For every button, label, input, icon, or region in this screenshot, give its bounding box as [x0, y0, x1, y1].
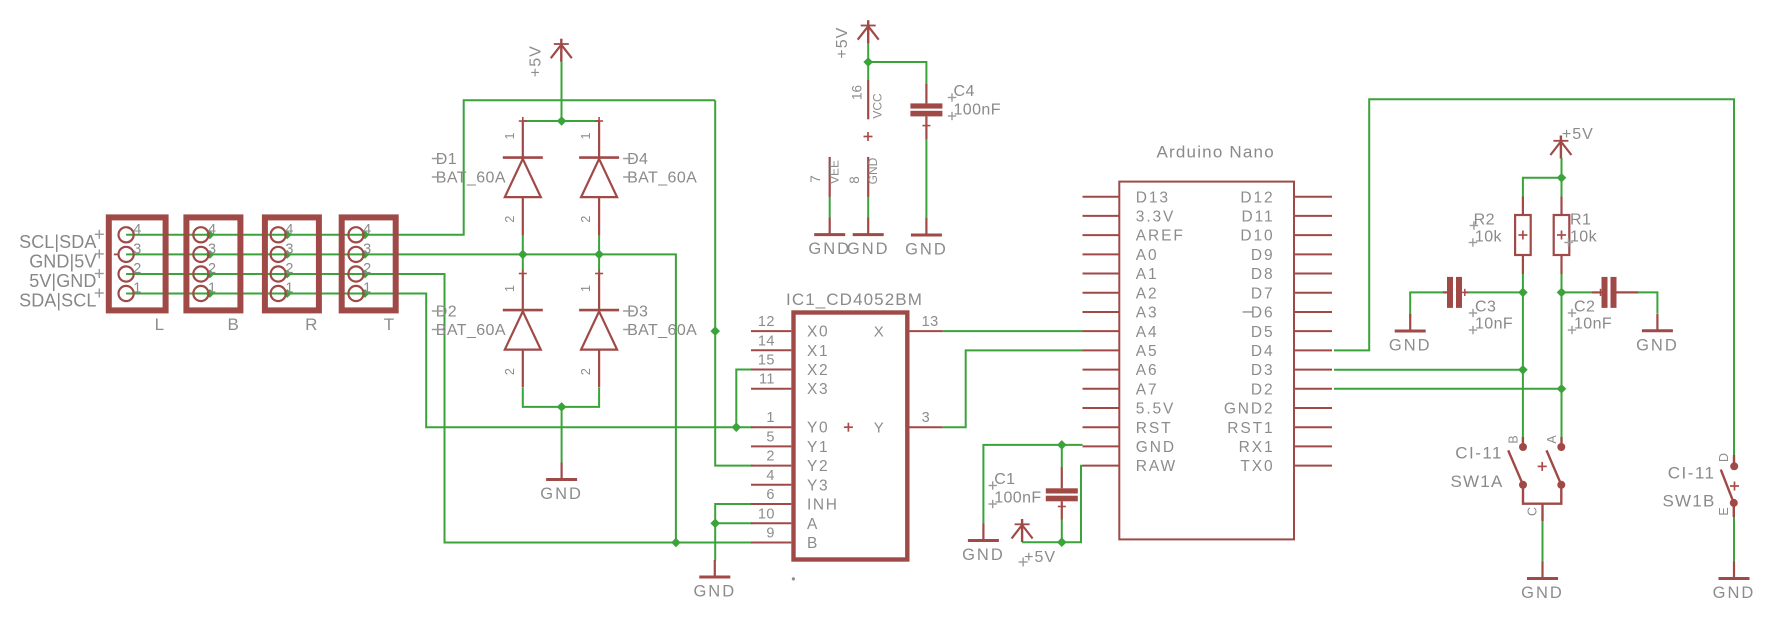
+5V supply at IC VCC: [834, 20, 879, 58]
wire bridge ground drop: [561, 407, 563, 463]
net label SCL|SDA: [19, 230, 104, 252]
svg-text:BAT_60A: BAT_60A: [436, 322, 506, 339]
ground at IC pin 7: [808, 218, 851, 259]
svg-text:RST: RST: [1136, 420, 1173, 437]
svg-text:GND: GND: [905, 241, 948, 259]
junction: [1518, 288, 1528, 298]
svg-text:1: 1: [579, 285, 593, 292]
svg-text:13: 13: [922, 314, 939, 330]
svg-text:11: 11: [759, 372, 775, 388]
junction: [1557, 288, 1567, 298]
svg-text:X: X: [874, 324, 885, 341]
wire Arduino D4 to top rail to SW1B: [1334, 99, 1734, 455]
svg-text:+5V: +5V: [834, 27, 851, 59]
svg-text:1: 1: [363, 281, 371, 297]
wire Arduino D3 to select B node: [1334, 369, 1523, 371]
svg-text:A1: A1: [1136, 266, 1159, 283]
junction: [1057, 537, 1067, 547]
svg-text:GND: GND: [693, 583, 736, 601]
svg-text:8: 8: [847, 176, 862, 184]
svg-text:A2: A2: [1136, 285, 1159, 302]
svg-text:IC1_CD4052BM: IC1_CD4052BM: [786, 290, 923, 309]
svg-text:A6: A6: [1136, 362, 1159, 379]
junction: [1557, 173, 1567, 183]
wire Arduino D2 to select A node: [1334, 388, 1562, 390]
capacitor C2 pin cross: [1597, 291, 1604, 293]
svg-text:GND: GND: [1636, 336, 1679, 354]
junction: [732, 422, 742, 432]
junction: [594, 250, 604, 260]
svg-text:GND|5V: GND|5V: [29, 252, 96, 272]
svg-text:GND: GND: [1389, 337, 1432, 355]
capacitor C4: [910, 83, 1000, 120]
svg-text:+5V: +5V: [1562, 126, 1594, 143]
svg-text:X3: X3: [807, 381, 829, 398]
svg-text:GND: GND: [808, 240, 851, 258]
svg-text:D10: D10: [1240, 228, 1274, 245]
svg-text:INH: INH: [807, 497, 839, 514]
ground at C3: [1389, 314, 1432, 355]
svg-text:B: B: [807, 535, 819, 552]
svg-text:SDA|SCL: SDA|SCL: [19, 291, 96, 311]
svg-text:D4: D4: [1251, 343, 1275, 360]
junction at connector R: [283, 250, 292, 259]
svg-text:BAT_60A: BAT_60A: [436, 170, 506, 187]
Arduino pin D10: [1240, 228, 1332, 245]
svg-text:4: 4: [766, 468, 775, 484]
capacitor C2 left lead stub: [1592, 291, 1602, 293]
svg-text:7: 7: [808, 175, 823, 183]
junction: [1557, 384, 1567, 394]
junction at connector B: [206, 250, 215, 259]
svg-text:D4: D4: [627, 151, 648, 168]
junction: [671, 538, 681, 548]
junction: [710, 519, 720, 529]
svg-text:X0: X0: [807, 324, 829, 341]
resistor R1: [1554, 197, 1598, 275]
svg-text:GND: GND: [1713, 584, 1756, 602]
connector T: [342, 217, 396, 334]
wire +5V rail to Arduino RAW: [1022, 466, 1082, 543]
wire IC GND pin8 to ground: [867, 197, 869, 218]
svg-text:D: D: [1717, 453, 1731, 462]
Arduino pin TX0: [1240, 458, 1332, 475]
svg-text:A: A: [1545, 435, 1559, 444]
switch SW1A: [1451, 435, 1566, 521]
wire net GND|5V row 3 through diode mids: [126, 254, 676, 542]
svg-text:15: 15: [758, 353, 775, 369]
svg-text:D3: D3: [627, 304, 648, 321]
IC1 pin 16 VCC: [850, 80, 885, 119]
wire net 5V|GND row 2 to IC pin B: [126, 274, 752, 543]
wire IC pin A branch: [715, 522, 752, 524]
svg-text:5V|GND: 5V|GND: [29, 271, 96, 291]
junction: [863, 57, 873, 67]
svg-text:GND: GND: [866, 157, 880, 184]
svg-text:CI-11: CI-11: [1668, 464, 1716, 483]
ground at C2: [1636, 314, 1679, 355]
wire IC INH/A to ground: [715, 504, 752, 561]
wire C3 to ground: [1410, 292, 1447, 318]
Arduino pin D3: [1251, 362, 1332, 379]
junction: [1057, 440, 1067, 450]
wire C1 bottom to +5V rail: [1061, 520, 1063, 543]
svg-text:1: 1: [285, 281, 293, 297]
svg-text:2: 2: [503, 216, 517, 223]
wire IC VCC to +5V and C4: [867, 42, 869, 80]
svg-text:D7: D7: [1251, 285, 1275, 302]
svg-text:CI-11: CI-11: [1455, 444, 1503, 463]
capacitor C3: [1447, 277, 1513, 334]
svg-text:D13: D13: [1136, 189, 1170, 206]
svg-text:D6: D6: [1251, 305, 1275, 322]
wire IC Y output to Arduino A5: [943, 350, 1083, 427]
svg-text:GND: GND: [1136, 439, 1176, 456]
svg-text:VCC: VCC: [871, 93, 885, 119]
svg-text:Arduino Nano: Arduino Nano: [1157, 143, 1275, 162]
svg-text:10k: 10k: [1570, 229, 1598, 246]
wire net SCL|SDA row: connectors to riser: [126, 100, 715, 235]
svg-text:X2: X2: [807, 362, 829, 379]
wire diode bridge bottom U to ground: [523, 388, 599, 407]
svg-text:5.5V: 5.5V: [1136, 401, 1176, 418]
svg-text:L: L: [155, 315, 164, 334]
net label 5V|GND: [29, 269, 104, 291]
svg-text:D2: D2: [436, 304, 457, 321]
wire IC X2 tie to Y0 node: [736, 370, 752, 428]
wire diode mid right leads: [598, 235, 600, 274]
Arduino pin A4: [1083, 324, 1159, 341]
Arduino pin D13: [1083, 189, 1170, 206]
wire C2 left lead: [1562, 291, 1593, 293]
Arduino pin GND2: [1224, 401, 1332, 418]
Arduino pin D5: [1251, 324, 1332, 341]
svg-text:D11: D11: [1242, 209, 1275, 226]
svg-text:C1: C1: [994, 471, 1015, 488]
wire +5V to R1 R2 tops: [1523, 178, 1562, 197]
connector R: [265, 217, 319, 334]
junction at connector T: [361, 270, 370, 279]
svg-text:16: 16: [850, 85, 865, 100]
ground at C1: [962, 524, 1005, 565]
wire diode mid left leads: [522, 235, 524, 274]
junction: [1518, 365, 1528, 375]
junction at connector R: [283, 270, 292, 279]
svg-text:A5: A5: [1136, 343, 1159, 360]
svg-text:2: 2: [208, 261, 216, 277]
wire +5V rail to diode bridge top: [561, 61, 563, 122]
svg-text:+5V: +5V: [1024, 549, 1056, 566]
svg-text:C: C: [1526, 507, 1540, 516]
capacitor C2: [1568, 277, 1617, 334]
svg-text:Y1: Y1: [807, 439, 829, 456]
svg-text:10nF: 10nF: [1574, 316, 1612, 333]
Arduino pin D2: [1251, 381, 1332, 398]
svg-text:D1: D1: [436, 151, 457, 168]
IC1 pin 14 X1: [751, 333, 829, 360]
capacitor C3 pin cross: [1461, 291, 1468, 293]
svg-text:AREF: AREF: [1136, 228, 1185, 245]
capacitor C4 bottom lead: [925, 116, 927, 139]
net label GND|5V: [29, 249, 104, 271]
svg-text:GND: GND: [1521, 584, 1564, 602]
capacitor C4 top lead: [925, 84, 927, 103]
wire IC X output to Arduino A4: [943, 330, 1083, 332]
svg-text:100nF: 100nF: [954, 102, 1001, 119]
svg-text:1: 1: [766, 410, 775, 426]
svg-text:2: 2: [579, 216, 593, 223]
Arduino pin A5: [1083, 343, 1159, 360]
IC1 pin 8 GND: [847, 157, 880, 197]
wire C3 right lead: [1464, 291, 1523, 293]
diode D3: [579, 270, 697, 388]
diode D4: [579, 117, 697, 235]
capacitor C1: [989, 471, 1078, 508]
svg-text:2: 2: [766, 449, 775, 465]
svg-text:4: 4: [208, 222, 216, 238]
junction at connector B: [206, 230, 215, 239]
IC1 pin 7 VEE: [808, 157, 842, 197]
svg-text:1: 1: [503, 285, 517, 292]
op-amp U1 IC1 CD4052BM body: [786, 290, 923, 581]
+5V supply above bridge: [527, 39, 572, 77]
svg-text:14: 14: [758, 333, 775, 349]
capacitor C1 bottom lead: [1061, 501, 1063, 519]
junction: [710, 326, 720, 336]
Arduino pin AREF: [1083, 228, 1185, 245]
connector L: [109, 217, 166, 334]
svg-text:BAT_60A: BAT_60A: [627, 170, 697, 187]
svg-text:+5V: +5V: [527, 45, 544, 77]
wire C1 top lead: [1061, 445, 1063, 467]
IC1 pin 11 X3: [751, 372, 829, 399]
junction at connector R: [283, 289, 292, 298]
Arduino pin RST: [1083, 420, 1173, 437]
svg-text:Y2: Y2: [807, 458, 829, 475]
svg-text:GND2: GND2: [1224, 401, 1275, 418]
junction: [557, 116, 567, 126]
svg-text:D5: D5: [1251, 324, 1275, 341]
Arduino pin RST1: [1227, 420, 1332, 437]
svg-text:3: 3: [208, 241, 216, 257]
Arduino pin 3.3V: [1083, 209, 1176, 226]
svg-text:A0: A0: [1136, 247, 1159, 264]
wire Arduino GND / C1 top / ground symbol: [983, 445, 1082, 524]
junction at connector T: [361, 230, 370, 239]
junction at connector B: [206, 289, 215, 298]
ground below C4: [905, 218, 948, 259]
svg-text:R: R: [305, 315, 317, 334]
capacitor C3 left lead stub: [1443, 291, 1447, 293]
wire SW1B bottom to ground: [1733, 517, 1735, 564]
IC1 pin 3 Y output: [874, 410, 943, 437]
svg-text:GND: GND: [847, 240, 890, 258]
ground below bridge: [540, 463, 583, 504]
IC1 pin 13 X output: [874, 314, 943, 341]
svg-text:X1: X1: [807, 343, 829, 360]
svg-text:9: 9: [766, 526, 775, 542]
junction: [518, 250, 528, 260]
junction at connector R: [283, 230, 292, 239]
svg-text:3: 3: [133, 241, 141, 257]
svg-text:C4: C4: [954, 83, 975, 100]
IC1 pin 4 Y3: [751, 468, 829, 495]
svg-text:E: E: [1717, 507, 1731, 515]
wire R1 bottom to C2 node to SW1A pin A: [1561, 274, 1563, 437]
junction at connector T: [361, 250, 370, 259]
wire C4 to ground: [925, 139, 927, 219]
diode D2: [432, 270, 543, 388]
IC1 pin 6 INH: [751, 487, 839, 514]
Arduino pin D12: [1240, 189, 1332, 206]
svg-text:B: B: [1507, 435, 1521, 443]
svg-text:SW1B: SW1B: [1663, 492, 1716, 511]
IC1 pin 9 B: [751, 526, 819, 553]
Arduino pin A7: [1083, 381, 1159, 398]
svg-text:GND: GND: [962, 546, 1005, 564]
svg-text:1: 1: [503, 132, 517, 139]
svg-text:Y3: Y3: [807, 477, 829, 494]
Arduino pin D9: [1251, 247, 1332, 264]
svg-text:100nF: 100nF: [994, 490, 1041, 507]
wire R2 bottom to C3 node to SW1A pin B: [1522, 274, 1524, 437]
Arduino pin 5.5V: [1083, 401, 1176, 418]
svg-text:BAT_60A: BAT_60A: [627, 322, 697, 339]
svg-text:TX0: TX0: [1240, 458, 1274, 475]
+5V supply above R1 R2: [1550, 126, 1593, 159]
svg-text:1: 1: [579, 132, 593, 139]
Arduino pin A2: [1083, 285, 1159, 302]
capacitor C1 top lead: [1061, 467, 1063, 488]
svg-text:SCL|SDA: SCL|SDA: [19, 232, 96, 252]
wire +5V branch to C4: [868, 62, 926, 86]
svg-text:A: A: [807, 516, 819, 533]
Arduino pin D4: [1251, 343, 1332, 360]
ground below SW1B: [1713, 562, 1756, 603]
Arduino pin A6: [1083, 362, 1159, 379]
ground below SW1A: [1521, 562, 1564, 603]
svg-text:12: 12: [758, 314, 775, 330]
svg-text:A3: A3: [1136, 305, 1159, 322]
svg-text:VEE: VEE: [828, 160, 842, 184]
svg-text:2: 2: [579, 368, 593, 375]
resistor R2: [1469, 197, 1531, 275]
Arduino pin A0: [1083, 247, 1159, 264]
IC1 pin 10 A: [751, 506, 819, 533]
svg-text:GND: GND: [540, 485, 583, 503]
svg-text:RX1: RX1: [1239, 439, 1275, 456]
svg-text:A4: A4: [1136, 324, 1159, 341]
svg-text:1: 1: [133, 281, 141, 297]
svg-text:B: B: [228, 315, 239, 334]
svg-text:3: 3: [285, 241, 293, 257]
IC1 pin 15 X2: [751, 353, 829, 380]
svg-text:Y: Y: [874, 420, 885, 437]
Arduino pin RX1: [1239, 439, 1332, 456]
diode D1: [432, 117, 543, 235]
svg-text:2: 2: [133, 261, 141, 277]
svg-text:D12: D12: [1240, 189, 1274, 206]
Arduino pin D7: [1251, 285, 1332, 302]
Arduino pin A3: [1083, 305, 1159, 322]
svg-text:SW1A: SW1A: [1451, 472, 1504, 491]
net label SDA|SCL: [19, 289, 104, 311]
svg-text:D8: D8: [1251, 266, 1275, 283]
wire diode bridge top rail: [523, 120, 599, 122]
capacitor C2 right lead: [1617, 291, 1639, 293]
Arduino pin GND: [1083, 439, 1176, 456]
svg-text:4: 4: [285, 222, 293, 238]
Arduino pin D6: [1243, 305, 1333, 322]
junction: [557, 402, 567, 412]
junction at connector B: [206, 270, 215, 279]
Arduino pin RAW: [1083, 458, 1178, 475]
svg-text:D9: D9: [1251, 247, 1275, 264]
svg-text:C2: C2: [1574, 299, 1595, 316]
svg-text:D3: D3: [1251, 362, 1275, 379]
svg-text:3.3V: 3.3V: [1136, 209, 1176, 226]
IC1 pin 12 X0: [751, 314, 829, 341]
svg-text:5: 5: [766, 429, 775, 445]
wire C2 to ground: [1638, 292, 1657, 313]
ground at IC INH/A net: [693, 560, 736, 601]
wire SW1A common to ground: [1542, 521, 1544, 564]
ground at IC pin 8: [847, 218, 890, 259]
svg-text:R1: R1: [1570, 212, 1591, 229]
svg-text:10: 10: [758, 506, 775, 522]
svg-text:RAW: RAW: [1136, 458, 1177, 475]
svg-text:2: 2: [363, 261, 371, 277]
svg-text:A7: A7: [1136, 381, 1159, 398]
svg-text:Y0: Y0: [807, 420, 829, 437]
svg-text:4: 4: [133, 222, 141, 238]
svg-text:T: T: [384, 315, 394, 334]
svg-text:10k: 10k: [1475, 229, 1503, 246]
Arduino Nano body: [1119, 143, 1294, 540]
svg-text:3: 3: [363, 241, 371, 257]
wire net SCL|SDA riser to IC X0/Y2: [715, 100, 752, 465]
Arduino pin D11: [1242, 209, 1332, 226]
svg-text:2: 2: [285, 261, 293, 277]
+5V supply at Arduino RAW rail: [1012, 519, 1056, 567]
svg-text:2: 2: [503, 368, 517, 375]
Arduino pin D8: [1251, 266, 1332, 283]
svg-text:10nF: 10nF: [1475, 316, 1513, 333]
switch SW1B: [1663, 453, 1739, 517]
svg-text:6: 6: [766, 487, 775, 503]
svg-text:4: 4: [363, 222, 371, 238]
svg-text:C3: C3: [1475, 299, 1496, 316]
junction at connector T: [361, 289, 370, 298]
svg-text:3: 3: [922, 410, 931, 426]
wire net SDA|SCL row 1 to IC Y0: [126, 294, 752, 428]
wire IC VEE pin7 to ground: [829, 197, 831, 218]
IC1 pin 5 Y1: [751, 429, 829, 456]
svg-text:1: 1: [208, 281, 216, 297]
IC1 pin 1 Y0: [751, 410, 829, 437]
IC1 pin 2 Y2: [751, 449, 829, 476]
connector B: [186, 217, 240, 334]
svg-text:D2: D2: [1251, 381, 1275, 398]
svg-text:RST1: RST1: [1227, 420, 1274, 437]
IC1 symbol origin cross: [864, 136, 873, 138]
Arduino pin A1: [1083, 266, 1159, 283]
